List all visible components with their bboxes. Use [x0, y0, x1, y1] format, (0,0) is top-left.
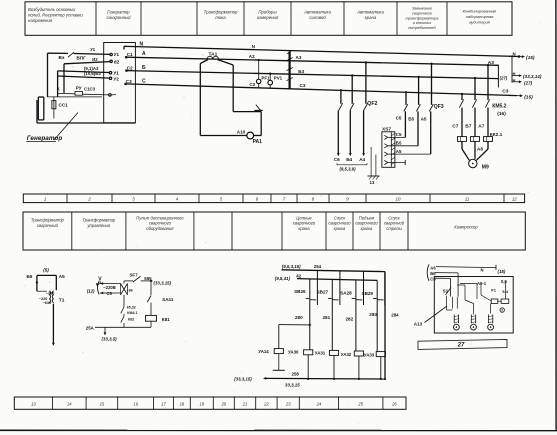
svg-text:14: 14 [67, 401, 72, 406]
svg-text:силовой: силовой [309, 15, 326, 20]
solenoid УА32 [341, 351, 364, 380]
circuit breaker QF2 [337, 61, 378, 156]
zone bar 27 [418, 339, 507, 349]
svg-text:С5: С5 [107, 291, 113, 296]
svg-text:33,3,15: 33,3,15 [285, 383, 300, 388]
svg-text:С3: С3 [126, 79, 132, 84]
svg-text:(16): (16) [497, 111, 506, 117]
svg-text:22: 22 [263, 401, 269, 406]
main schematic [26, 42, 542, 388]
svg-text:ТА1: ТА1 [209, 52, 218, 58]
ammeter РА1 [237, 130, 262, 145]
svg-text:аудитория: аудитория [469, 19, 490, 24]
svg-text:(33,3,15): (33,3,15) [234, 376, 252, 381]
svg-text:~636: ~636 [43, 301, 52, 305]
svg-text:(15): (15) [524, 95, 533, 101]
top table cell texts [28, 7, 497, 31]
N distribution vertical [511, 55, 513, 82]
svg-text:КМ4.1: КМ4.1 [127, 311, 137, 315]
svg-text:282: 282 [346, 317, 354, 322]
terminal bracket А3 Б3 [498, 65, 507, 88]
push button SB29 [362, 272, 385, 305]
svg-text:А7: А7 [478, 124, 484, 130]
svg-text:25: 25 [357, 401, 363, 406]
svg-text:М9: М9 [482, 164, 489, 170]
voltmeter PV1 [268, 73, 283, 89]
source bracket (12) [87, 281, 100, 295]
svg-text:У1: У1 [90, 47, 96, 52]
control transformer [121, 284, 133, 295]
node C3 [124, 79, 132, 85]
generator label callout [26, 113, 78, 142]
node C2 [125, 66, 133, 72]
QF2 output labels С6 Б4 А4 [334, 157, 367, 171]
compressor box [434, 277, 513, 334]
svg-text:(9,5,3,16): (9,5,3,16) [282, 264, 301, 269]
svg-text:23: 23 [285, 401, 291, 406]
wire bus C [126, 79, 517, 96]
svg-text:С3: С3 [502, 88, 508, 94]
resistor РУ [57, 86, 109, 96]
svg-text:(12): (12) [87, 288, 95, 293]
wire lower regulator [48, 53, 103, 97]
wire ~220В [100, 282, 121, 290]
svg-text:11: 11 [465, 196, 470, 201]
svg-text:42: 42 [296, 273, 301, 278]
svg-text:С2: С2 [249, 82, 255, 87]
svg-text:280: 280 [295, 315, 303, 320]
svg-text:К81: К81 [162, 317, 170, 322]
svg-text:стрелы: стрелы [386, 226, 402, 231]
svg-text:измерения: измерения [257, 15, 279, 20]
svg-text:65,32: 65,32 [127, 306, 136, 310]
svg-text:тока: тока [215, 15, 226, 20]
svg-text:N: N [140, 42, 144, 48]
control bottom wire [86, 325, 151, 330]
svg-text:~36: ~36 [126, 288, 132, 292]
svg-text:16: 16 [133, 401, 138, 406]
svg-text:крюка: крюка [361, 226, 373, 231]
svg-text:синхронный: синхронный [106, 15, 131, 20]
wire С6 into box [435, 278, 450, 296]
svg-text:У1: У1 [114, 52, 120, 57]
svg-text:А13: А13 [414, 322, 423, 327]
wire А5 XS7 to QF3 [388, 149, 431, 154]
switch S1 [443, 288, 451, 295]
КМ5.2 phase labels С7 Б7 А7 [452, 124, 484, 130]
svg-text:SB29: SB29 [362, 291, 374, 296]
svg-text:напряжения: напряжения [28, 18, 53, 23]
svg-text:Б7: Б7 [465, 124, 471, 130]
svg-text:18: 18 [180, 401, 185, 406]
wire bus N [124, 42, 519, 57]
svg-text:PF1: PF1 [261, 76, 270, 81]
svg-text:N: N [481, 267, 484, 272]
svg-text:С7: С7 [452, 124, 458, 130]
svg-text:13: 13 [31, 401, 36, 406]
svg-text:Замыкание: Замыкание [412, 7, 432, 11]
svg-text:А3: А3 [488, 60, 494, 66]
resistor СС1 [52, 97, 68, 119]
svg-text:Т1: Т1 [59, 297, 65, 303]
compressor motor М2 [471, 315, 477, 331]
ground УА14 [273, 354, 285, 371]
svg-text:УА31: УА31 [315, 351, 326, 356]
svg-text:SB26: SB26 [294, 289, 306, 294]
svg-text:С1: С1 [127, 52, 133, 57]
svg-text:С3: С3 [300, 83, 306, 88]
switch ВПГ wire [48, 52, 110, 60]
terminal C1-C3 regulator tap [109, 94, 116, 96]
svg-text:17: 17 [161, 401, 166, 406]
wires inside compressor [447, 282, 506, 315]
svg-text:А6: А6 [430, 265, 436, 270]
svg-text:сварочного: сварочного [412, 11, 432, 15]
svg-text:Генератор: Генератор [27, 135, 63, 142]
svg-text:254: 254 [314, 264, 322, 269]
ground 13 [368, 147, 380, 185]
svg-text:А4: А4 [359, 157, 365, 162]
svg-text:Возбудитель основных: Возбудитель основных [28, 7, 76, 12]
switch SF7 [124, 272, 153, 283]
svg-text:У1: У1 [113, 71, 119, 76]
svg-text:КК2.1: КК2.1 [490, 132, 503, 138]
terminal У2 [109, 76, 119, 81]
svg-text:УА30: УА30 [288, 349, 299, 354]
svg-text:(15): (15) [526, 55, 535, 61]
node А8 [477, 146, 483, 151]
wire 254 [282, 264, 386, 272]
svg-text:26: 26 [391, 401, 397, 406]
svg-text:N: N [513, 51, 516, 56]
svg-text:И2: И2 [92, 57, 98, 62]
bus N terminator (15) [513, 51, 535, 61]
svg-text:(33,3,14): (33,3,14) [523, 74, 542, 79]
svg-text:Б3: Б3 [298, 69, 304, 74]
svg-text:КМ5.2: КМ5.2 [492, 104, 506, 110]
svg-text:27: 27 [457, 343, 465, 349]
compressor motor М1 [454, 315, 460, 331]
svg-text:трансформатора: трансформатора [406, 16, 439, 20]
push button SA28 [340, 271, 363, 305]
contactor КМ5.2 contacts [459, 64, 506, 137]
svg-text:(5): (5) [43, 267, 49, 272]
node А3 label [296, 55, 302, 60]
svg-text:крана: крана [365, 15, 377, 20]
terminator (27) [512, 77, 533, 85]
svg-text:(27): (27) [500, 75, 508, 80]
second table cell texts [31, 216, 478, 231]
svg-text:283: 283 [369, 312, 377, 317]
push button SB27 [317, 271, 340, 305]
svg-text:Б4: Б4 [346, 157, 352, 162]
svg-text:20: 20 [220, 401, 226, 406]
svg-text:К82: К82 [128, 318, 134, 322]
svg-text:SА41: SА41 [162, 297, 174, 302]
svg-text:К: К [57, 86, 60, 91]
svg-text:Генератор: Генератор [107, 10, 130, 15]
svg-text:SB27: SB27 [317, 290, 329, 295]
svg-text:Приборы: Приборы [258, 10, 277, 15]
svg-text:~380: ~380 [46, 291, 55, 295]
svg-text:Б5: Б5 [27, 274, 33, 279]
svg-text:Автоматика: Автоматика [356, 10, 384, 15]
thermal overload КК2.1 [458, 132, 503, 142]
svg-text:А3: А3 [296, 55, 302, 60]
svg-text:24: 24 [316, 401, 322, 406]
wire (9,1)А3 [58, 66, 110, 73]
wire to УА14 [279, 324, 311, 349]
svg-text:сварочный: сварочный [37, 223, 59, 228]
solenoid УА33 [364, 352, 386, 380]
svg-text:258: 258 [292, 372, 300, 377]
numbered zone row 13-26 [14, 397, 406, 409]
svg-text:~220В: ~220В [103, 285, 115, 290]
svg-text:SA28: SA28 [340, 290, 352, 295]
svg-text:QF3: QF3 [434, 104, 444, 110]
generator G1 enclosure [37, 97, 135, 123]
wire С5 XS7 to QF3 [388, 132, 406, 137]
svg-text:Б6: Б6 [430, 271, 436, 276]
svg-text:Б5: Б5 [396, 141, 402, 146]
svg-text:РУ: РУ [76, 86, 82, 91]
svg-text:(27): (27) [524, 81, 533, 86]
svg-text:А5: А5 [396, 149, 402, 154]
svg-text:РА1: РА1 [253, 139, 263, 145]
svg-text:2: 2 [87, 196, 91, 201]
fuse А9-1 [460, 281, 487, 299]
terminal У1 [110, 52, 120, 57]
svg-text:А10: А10 [237, 130, 246, 135]
svg-text:и внешних: и внешних [413, 21, 433, 25]
wire 284 [384, 272, 399, 381]
svg-text:13: 13 [370, 180, 375, 185]
svg-text:Автоматика: Автоматика [303, 10, 331, 15]
ТА1 secondary wire right [218, 60, 262, 136]
cable harness marker [286, 50, 292, 89]
svg-text:оборудования: оборудования [146, 226, 174, 231]
frequency meter PF1 [249, 59, 270, 88]
wire Б5 XS7 to QF3 [388, 141, 418, 146]
svg-text:QF2: QF2 [367, 101, 377, 107]
bus C terminator (15) [502, 88, 533, 100]
svg-text:УА32: УА32 [341, 352, 352, 357]
motor М9 [462, 141, 489, 170]
node С3 label [300, 83, 306, 88]
svg-text:С: С [142, 79, 146, 85]
svg-text:(9,5,3,9): (9,5,3,9) [340, 166, 357, 171]
relay F1 [491, 288, 509, 304]
svg-text:С1С3: С1С3 [84, 86, 96, 91]
voltmeter mark V [96, 276, 103, 286]
terminator (33,3,14) [512, 71, 542, 79]
svg-text:(33,3,5): (33,3,5) [102, 337, 118, 342]
svg-text:С6: С6 [334, 157, 340, 162]
wire 281 [323, 302, 333, 351]
terminal d2 [110, 59, 120, 64]
svg-text:С5: С5 [396, 132, 402, 137]
wire to d2 [64, 62, 110, 93]
terminal У1 lower [109, 71, 119, 76]
switch SA41 [147, 280, 174, 316]
svg-text:Комбинированная: Комбинированная [463, 9, 498, 14]
wire 283 [369, 302, 377, 352]
svg-text:Трансформатор: Трансформатор [204, 10, 238, 15]
current transformer ТА1 [207, 52, 219, 60]
Т1 output wire [52, 304, 55, 346]
wire bus Б [127, 65, 499, 79]
wire 42 [275, 273, 377, 281]
wire XS7 pin4 stub [388, 160, 405, 165]
svg-text:УА33: УА33 [364, 353, 375, 358]
svg-text:А5: А5 [59, 274, 65, 279]
svg-text:0,5: 0,5 [501, 279, 507, 284]
ТА1 secondary wire left [200, 60, 247, 136]
wire 282 [346, 302, 356, 352]
svg-text:15: 15 [100, 401, 105, 406]
svg-text:(9,5,41): (9,5,41) [275, 276, 291, 281]
svg-text:10: 10 [396, 196, 401, 201]
node C1 [125, 52, 133, 59]
svg-text:(33,3,15): (33,3,15) [154, 280, 172, 285]
svg-text:281: 281 [323, 315, 331, 320]
svg-text:потребителей: потребителей [408, 26, 436, 30]
node Б3 label [298, 69, 304, 74]
node А13 callout [414, 306, 447, 327]
svg-text:Трансформатор: Трансформатор [31, 218, 65, 223]
wire (10,6)Б3 [58, 71, 110, 97]
svg-text:Б5: Б5 [408, 116, 414, 121]
svg-text:А8: А8 [477, 146, 483, 151]
solenoid УА31 [315, 350, 339, 380]
relay coil К81 [146, 315, 171, 327]
svg-text:Н: Н [513, 71, 516, 76]
top reference table [25, 2, 512, 36]
wire label И2 [92, 57, 98, 62]
svg-text:PV1: PV1 [274, 75, 283, 80]
connector XS7 [382, 126, 395, 167]
svg-text:лабораторная: лабораторная [465, 14, 495, 19]
svg-text:С6: С6 [430, 276, 436, 281]
second reference table [23, 212, 525, 250]
svg-text:(9,1)А3: (9,1)А3 [84, 66, 99, 71]
transformer Т1 feed [27, 267, 66, 291]
svg-text:21: 21 [242, 401, 248, 406]
svg-text:(10,6)Б3: (10,6)Б3 [84, 71, 101, 76]
svg-text:управления: управления [86, 223, 110, 228]
terminator (33,3,15) control [154, 280, 172, 285]
transformer Т1 [37, 291, 65, 305]
node А3 right [488, 60, 494, 66]
wire Б6 into box [435, 273, 458, 297]
numbered zone row 1-12 [23, 194, 524, 203]
svg-text:d2: d2 [114, 59, 120, 64]
solenoid УА30 [288, 349, 313, 380]
svg-text:(15): (15) [498, 269, 506, 274]
contacts КМ4.1 К82 [121, 295, 138, 328]
svg-text:А9-1: А9-1 [477, 281, 487, 286]
svg-text:полей. Регулятор уставки: полей. Регулятор уставки [28, 13, 83, 18]
wire 258 bottom bus [234, 372, 385, 388]
wire bus A [126, 51, 498, 65]
circuit breaker QF3 [404, 63, 444, 155]
push button SB26 [294, 270, 317, 305]
svg-text:СС1: СС1 [59, 103, 69, 108]
svg-text:крана: крана [298, 226, 310, 231]
svg-text:Б: Б [142, 65, 146, 71]
ground mark near ТА1 loop [254, 105, 262, 111]
svg-text:N: N [252, 44, 255, 49]
wire N compressor [436, 265, 506, 274]
svg-text:F1: F1 [491, 288, 496, 293]
svg-text:А5: А5 [421, 117, 427, 122]
svg-text:Вэ: Вэ [59, 55, 65, 60]
svg-text:А2: А2 [249, 54, 255, 59]
wire С5 control [100, 291, 121, 296]
compressor feed bracket [427, 264, 436, 281]
svg-text:284: 284 [391, 313, 399, 318]
svg-text:25А: 25А [86, 325, 95, 330]
svg-text:С2: С2 [127, 66, 133, 71]
wire label У1 [90, 47, 96, 52]
svg-text:А: А [142, 51, 146, 57]
terminator (33,3,5) [102, 327, 118, 341]
solenoid УА14 [258, 349, 283, 355]
QF3 pole labels С5 Б5 А5 [396, 116, 427, 122]
svg-text:12: 12 [512, 196, 517, 201]
generator G1 box [104, 43, 136, 123]
indicator НL [500, 308, 504, 312]
svg-text:УА14: УА14 [258, 349, 269, 354]
svg-text:У2: У2 [113, 76, 119, 81]
wire 280 [295, 302, 310, 350]
svg-text:С5: С5 [396, 116, 402, 121]
svg-text:ВПГ: ВПГ [77, 56, 87, 61]
svg-text:крюка: крюка [334, 226, 346, 231]
svg-text:SF7: SF7 [130, 272, 139, 277]
svg-text:Трансформатор: Трансформатор [82, 218, 116, 223]
svg-text:19: 19 [199, 401, 204, 406]
compressor motor М3 [488, 315, 494, 331]
svg-text:Компрессор: Компрессор [454, 225, 478, 230]
